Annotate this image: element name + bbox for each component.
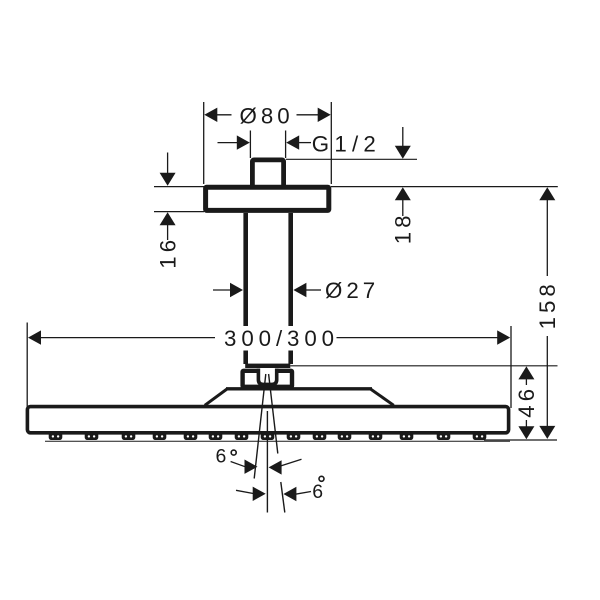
dim 18 down arrowhead [395,146,411,159]
dim G1/2 right extension line [285,131,287,159]
svg-text:16: 16 [156,236,181,269]
dim G1/2 right arrow tail [298,142,311,144]
angle 6 upper-right arrowhead [269,460,282,474]
dim 158 down arrowhead [539,426,555,439]
dim 16 up arrow line [167,225,169,240]
angle 6 lower-left arrowhead [253,487,266,501]
dim 46 up arrowhead [518,366,534,379]
angle 6 lower-right tail [296,492,312,495]
dim 158 upper line [546,200,548,276]
ceiling line right segment [331,186,558,188]
dim 18 up arrowhead [395,187,411,200]
nozzle dots [52,435,484,437]
dim Ø80 left extension line [203,102,205,184]
dim G1/2 left arrowhead [237,135,250,149]
dim 18 down arrow line [402,127,404,148]
shoulder left slope [205,389,227,405]
dim 300/300 right extension line [510,326,512,408]
dim G1/2 left arrow tail [218,142,239,144]
svg-text:46: 46 [514,385,539,418]
dim 16 down arrow line [167,153,169,175]
dim 300/300 line left segment [39,337,215,339]
angle 6 upper-right tail [281,459,302,466]
dim 300/300 right arrowhead [497,330,510,344]
flange bottom extension line [154,211,204,213]
dim 18 top extension line [286,158,417,160]
shoulder top line [226,387,372,390]
svg-text:6: 6 [312,481,323,503]
pipe left wall [243,213,248,364]
svg-text:300/300: 300/300 [224,326,339,351]
dim 158 up arrowhead [539,187,555,200]
dim 300/300 label background mask [222,326,336,351]
angle label 6 lower-right degree [319,476,324,481]
dim 46 top extension line [290,365,557,367]
dim 16 down arrowhead [160,173,176,186]
dim 300/300 left arrowhead [28,330,41,344]
dim Ø27 right arrow tail [305,289,321,291]
angle 6 upper-left leader [231,462,245,467]
angle label 6 upper-left degree [231,450,236,455]
svg-text:G1/2: G1/2 [312,131,381,156]
spray line right 6deg lower segment [281,482,285,513]
shoulder right slope [371,389,394,405]
head slab [27,407,508,433]
dim Ø27 left arrowhead [230,283,243,297]
connector G1/2 thread [252,160,283,194]
dim 18 up arrow line [402,200,404,216]
dim 300/300 left extension line [26,323,28,408]
dim 46 lower line [525,420,527,427]
dim 46 upper line [525,379,527,385]
svg-text:Ø27: Ø27 [325,278,379,303]
dim G1/2 left extension line [249,131,251,159]
ceiling line left segment [154,186,204,188]
dim 300/300 line right segment [337,337,500,339]
spray line right 6deg upper segment [269,374,278,454]
svg-text:6: 6 [216,445,227,467]
ball joint [258,369,276,385]
escutcheon box [243,371,292,387]
ceiling flange [206,187,329,210]
svg-text:158: 158 [535,280,560,329]
svg-text:18: 18 [391,211,416,244]
dim Ø27 right arrowhead [293,283,306,297]
spray line left 6deg [254,374,266,479]
angle 6 lower-right arrowhead [283,487,296,501]
dim 16 up arrowhead [160,212,176,225]
dim Ø80 right extension line [330,102,332,184]
nozzle row [49,432,487,440]
dim 46 down arrowhead [518,426,534,439]
dim Ø80 line left segment [206,114,232,116]
dim Ø27 left arrow tail [213,289,232,291]
dim 158 lower line [546,336,548,427]
pipe end plate [245,364,290,368]
pipe right wall [288,213,293,364]
dim Ø80 right arrowhead [318,108,331,122]
dim Ø80 line right segment [297,114,330,116]
svg-text:Ø80: Ø80 [240,103,294,128]
spray line vertical [266,411,268,513]
dim Ø80 left arrowhead [204,108,217,122]
angle 6 lower-left tail [236,490,254,493]
spray face line under head [45,440,510,442]
angle 6 upper-left arrowhead [245,460,258,474]
dim G1/2 right arrowhead [286,135,299,149]
spray face extension line right [484,439,557,441]
